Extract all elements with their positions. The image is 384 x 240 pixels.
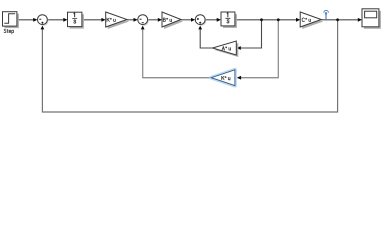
integrator block 1 (1/s) (68, 12, 84, 28)
wire Sum3 to Integrator2 (205, 19, 218, 21)
arrowhead into Sum2 bottom (141, 26, 145, 30)
wire Sum2 to Gain B (148, 19, 159, 21)
wire outer feedback loop (42, 20, 337, 112)
wire Integrator1 to Gain K (82, 19, 103, 21)
wire blue-gain feedback loop left segment (143, 28, 212, 77)
summing junction Sum2 (138, 15, 149, 26)
wire Integrator2 to Gain C (235, 19, 297, 21)
gain block A*u (left pointing) (213, 41, 239, 57)
wire Step to Sum1 (17, 19, 35, 21)
junction node y-branch (336, 18, 339, 21)
gain block B*u (162, 12, 183, 29)
wire A-gain feedback right segment (240, 20, 261, 48)
junction node x-branch2 (277, 18, 280, 21)
wire Gain K to Sum2 (127, 19, 135, 21)
wire Gain C to Scope (321, 19, 359, 21)
wire A-gain feedback left segment (200, 28, 213, 48)
arrowhead into Sum1 bottom (41, 26, 45, 30)
arrowhead into Gain A input (237, 46, 241, 50)
scope block (362, 9, 381, 29)
summing junction Sum1 (38, 15, 49, 26)
gain block K*u feedback (selected, blue, left pointing) (211, 70, 235, 86)
gain block K*u (106, 12, 129, 29)
integrator block 2 (1/s) (221, 12, 237, 28)
summing junction Sum3 (195, 15, 206, 26)
junction node x-branch1 (260, 18, 263, 21)
wire Sum1 to Integrator1 (47, 19, 64, 21)
arrowhead into blue Gain input (237, 76, 241, 80)
wire Gain B to Sum3 (181, 19, 192, 21)
gain block C*u (300, 12, 323, 29)
arrowhead into Sum3 bottom (198, 26, 202, 30)
wire blue-gain feedback loop right segment (238, 20, 279, 77)
signal logging badge (blue antenna) (324, 11, 329, 20)
step source block (3, 12, 19, 34)
